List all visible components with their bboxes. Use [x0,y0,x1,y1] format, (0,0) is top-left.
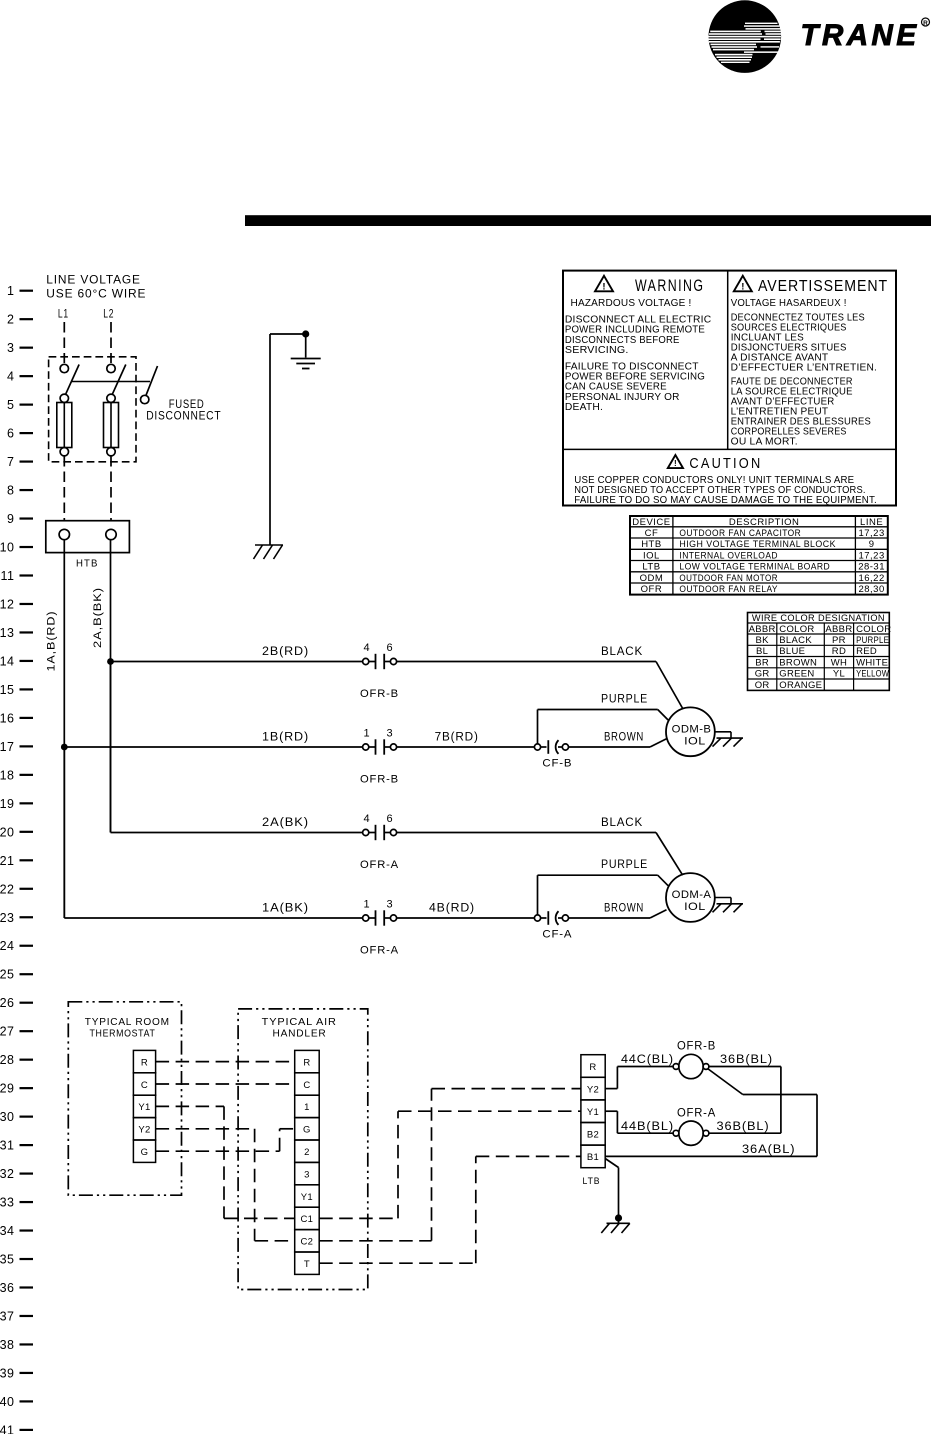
svg-text:TYPICAL AIR: TYPICAL AIR [262,1016,337,1028]
svg-text:2: 2 [304,1147,310,1158]
wire 1A,B(RD) vertical [46,540,65,918]
svg-text:21: 21 [0,854,15,868]
svg-text:BROWN: BROWN [604,903,644,915]
contact OFR-B 4-6 [360,642,399,700]
svg-text:DESCRIPTION: DESCRIPTION [729,517,799,528]
svg-text:18: 18 [0,768,15,782]
svg-text:1: 1 [363,899,369,911]
svg-text:GR: GR [755,669,770,680]
svg-text:OFR: OFR [641,584,663,595]
switch S2 [107,364,126,394]
svg-text:R: R [923,20,928,27]
wire LTB B1 to ground [605,1159,622,1224]
wire BROWN ODM-A [569,903,667,919]
svg-text:HANDLER: HANDLER [273,1028,327,1040]
svg-text:HIGH VOLTAGE TERMINAL BLOCK: HIGH VOLTAGE TERMINAL BLOCK [679,539,836,550]
svg-text:22: 22 [0,882,15,896]
svg-text:COLOR: COLOR [779,624,814,635]
svg-text:Y1: Y1 [587,1107,599,1118]
svg-text:SERVICING.: SERVICING. [565,345,629,356]
node L1 [58,308,69,320]
wire BLACK to ODM-B [397,646,683,709]
svg-text:OU LA MORT.: OU LA MORT. [731,437,798,448]
svg-text:AVERTISSEMENT: AVERTISSEMENT [758,278,888,295]
terminal block LTB [581,1055,605,1187]
chassis ground symbol [254,545,284,559]
svg-text:THERMOSTAT: THERMOSTAT [90,1028,156,1040]
svg-text:9: 9 [7,512,14,526]
capacitor CF-B [534,740,572,769]
svg-text:TYPICAL ROOM: TYPICAL ROOM [85,1016,170,1028]
svg-text:C2: C2 [301,1237,314,1248]
wire 1A(BK) [64,747,362,918]
svg-text:9: 9 [869,539,875,550]
svg-text:BLACK: BLACK [601,646,643,658]
ground wire top [270,330,309,357]
svg-text:PURPLE: PURPLE [601,859,648,871]
svg-text:GREEN: GREEN [779,669,814,680]
node L2 [103,308,114,320]
earth ground symbol [291,359,321,369]
svg-text:WH: WH [831,657,847,668]
svg-text:Y2: Y2 [138,1125,150,1136]
wire PURPLE ODM-B [538,694,669,744]
switch linkage bar [71,381,150,383]
svg-text:OUTDOOR FAN RELAY: OUTDOOR FAN RELAY [679,584,778,595]
svg-text:6: 6 [386,642,392,654]
svg-text:1B(RD): 1B(RD) [262,732,309,744]
svg-text:BLACK: BLACK [601,817,643,829]
svg-text:17,23: 17,23 [858,528,884,539]
svg-text:RED: RED [856,646,877,657]
svg-text:BR: BR [755,657,769,668]
svg-text:27: 27 [0,1025,15,1039]
wire L2 to disconnect [110,322,112,363]
svg-text:2A,B(BK): 2A,B(BK) [92,587,104,648]
svg-text:LINE: LINE [860,517,883,528]
svg-text:7B(RD): 7B(RD) [435,732,479,744]
svg-text:4: 4 [363,642,369,654]
warning label [563,271,896,506]
svg-text:OFR-B: OFR-B [360,688,399,700]
svg-text:WHITE: WHITE [856,657,888,668]
svg-text:ODM-A: ODM-A [672,889,712,901]
svg-text:OUTDOOR FAN CAPACITOR: OUTDOOR FAN CAPACITOR [679,528,801,539]
svg-text:OFR-A: OFR-A [677,1108,716,1120]
svg-text:36A(BL): 36A(BL) [742,1144,796,1156]
svg-text:25: 25 [0,968,15,982]
svg-text:!: ! [674,459,677,468]
switch S3 [141,366,158,404]
wire T air handler to LTB B1 [319,1156,581,1263]
svg-text:28,30: 28,30 [858,584,884,595]
svg-text:!: ! [602,281,605,292]
svg-text:23: 23 [0,911,15,925]
svg-text:HTB: HTB [641,539,662,550]
svg-text:6: 6 [7,427,14,441]
svg-text:LTB: LTB [642,562,660,573]
svg-text:LTB: LTB [583,1176,601,1187]
typical air handler enclosure [238,1009,368,1290]
svg-text:ABBR: ABBR [825,624,852,635]
svg-text:35: 35 [0,1253,15,1267]
fuse F1 [57,394,72,456]
capacitor CF-A [534,911,572,940]
wire Y1 thermostat to C1 [156,1106,295,1218]
svg-text:4: 4 [363,813,369,825]
svg-text:17,23: 17,23 [858,550,884,561]
svg-text:YL: YL [833,669,845,680]
svg-text:1A,B(RD): 1A,B(RD) [46,611,58,672]
svg-text:DEATH.: DEATH. [565,402,603,413]
svg-text:14: 14 [0,654,15,668]
svg-text:COLOR: COLOR [856,624,891,635]
svg-text:USE 60°C WIRE: USE 60°C WIRE [46,289,146,301]
relay coil OFR-A [673,1108,716,1146]
wire 2A,B(BK) vertical [92,540,111,833]
svg-text:3: 3 [386,728,392,740]
line number scale [0,284,33,1434]
contact OFR-A 1-3 [360,899,399,957]
svg-text:7: 7 [7,455,14,469]
wire R thermostat to air handler [156,1061,295,1063]
svg-text:8: 8 [7,484,14,498]
svg-text:36B(BL): 36B(BL) [717,1121,770,1133]
svg-text:33: 33 [0,1196,15,1210]
svg-text:BROWN: BROWN [779,657,817,668]
wire color designation table [748,613,892,692]
wire BLACK to ODM-A [397,817,683,875]
junction line17 [61,744,68,751]
thermostat terminal strip [133,1050,155,1162]
svg-text:29: 29 [0,1082,15,1096]
svg-text:R: R [589,1062,596,1073]
terminal block HTB [46,521,130,570]
svg-text:28: 28 [0,1053,15,1067]
svg-text:HTB: HTB [76,558,99,570]
wire G thermostat to air handler [156,1129,295,1151]
svg-text:3: 3 [7,341,14,355]
wire Y2 thermostat to C2 [156,1129,295,1241]
wire 44B(BL) [605,1111,674,1133]
svg-text:OFR-A: OFR-A [360,859,399,871]
motor ODM-A with internal overload [666,873,715,922]
svg-text:34: 34 [0,1224,15,1238]
svg-text:BLUE: BLUE [779,646,805,657]
svg-text:Y2: Y2 [587,1084,599,1095]
svg-text:LOW VOLTAGE TERMINAL BOARD: LOW VOLTAGE TERMINAL BOARD [679,562,830,573]
wire 2A(BK) [111,662,363,833]
svg-text:R: R [303,1057,310,1068]
wire 4B(RD) [397,903,535,919]
svg-text:BL: BL [756,646,768,657]
svg-text:INTERNAL OVERLOAD: INTERNAL OVERLOAD [679,550,778,561]
svg-text:PR: PR [832,635,846,646]
svg-text:IOL: IOL [643,550,660,561]
fused disconnect enclosure [49,357,222,462]
svg-text:ORANGE: ORANGE [779,680,822,691]
svg-text:PURPLE: PURPLE [856,635,889,646]
wire 36B(BL) [709,1054,781,1133]
svg-text:BK: BK [756,635,770,646]
svg-text:ODM: ODM [640,573,664,584]
svg-text:39: 39 [0,1366,15,1380]
svg-text:17: 17 [0,740,15,754]
svg-text:Y1: Y1 [138,1102,150,1113]
relay coil OFR-B [673,1041,716,1079]
Trane logo [709,0,930,73]
svg-text:WARNING: WARNING [635,276,704,295]
svg-text:OR: OR [755,680,770,691]
svg-text:OFR-A: OFR-A [360,945,399,957]
wire 7B(RD) [397,732,535,748]
air handler terminal strip [295,1050,320,1274]
svg-text:16: 16 [0,711,15,725]
svg-text:VOLTAGE HASARDEUX !: VOLTAGE HASARDEUX ! [731,298,847,309]
wire BROWN ODM-B [569,732,667,748]
svg-text:1: 1 [304,1102,310,1113]
svg-text:1: 1 [7,284,14,298]
wire 44C(BL) [605,1054,674,1089]
svg-text:DISCONNECT: DISCONNECT [146,411,221,423]
svg-text:LINE VOLTAGE: LINE VOLTAGE [46,275,141,287]
wire C2 to LTB Y2 [319,1089,581,1241]
junction line14 [107,658,114,665]
svg-text:1: 1 [363,728,369,740]
typical room thermostat enclosure [68,1002,181,1195]
wire C1 to LTB Y1 [319,1111,581,1218]
svg-text:2A(BK): 2A(BK) [262,817,309,829]
svg-text:20: 20 [0,825,15,839]
svg-text:B2: B2 [587,1130,599,1141]
contact OFR-A 4-6 [360,813,399,871]
svg-text:41: 41 [0,1423,15,1434]
svg-text:IOL: IOL [684,735,706,747]
svg-text:28-31: 28-31 [858,562,885,573]
svg-text:RD: RD [832,646,846,657]
svg-text:YELLOW: YELLOW [856,669,889,680]
svg-text:CAUTION: CAUTION [689,456,762,472]
svg-text:4: 4 [7,370,14,384]
svg-text:DEVICE: DEVICE [632,517,670,528]
svg-text:40: 40 [0,1395,15,1409]
chassis ground ODM-B [713,732,744,747]
svg-text:IOL: IOL [684,901,706,913]
wire L1 to disconnect [63,322,65,363]
svg-text:10: 10 [0,541,15,555]
svg-text:FUSED: FUSED [169,399,205,411]
wire ground vertical [269,334,271,545]
svg-text:31: 31 [0,1139,15,1153]
device legend table [630,516,888,595]
svg-text:1A(BK): 1A(BK) [262,903,309,915]
switch S1 [60,364,79,394]
svg-text:OFR-B: OFR-B [360,774,399,786]
svg-text:15: 15 [0,683,15,697]
svg-text:26: 26 [0,996,15,1010]
svg-text:HAZARDOUS VOLTAGE !: HAZARDOUS VOLTAGE ! [571,298,692,309]
svg-text:T: T [304,1259,310,1270]
svg-text:FAILURE TO DO SO MAY CAUSE DAM: FAILURE TO DO SO MAY CAUSE DAMAGE TO THE… [574,495,877,506]
svg-text:PURPLE: PURPLE [601,694,648,706]
svg-text:11: 11 [1,569,15,583]
svg-text:C: C [303,1080,310,1091]
svg-text:CF-A: CF-A [542,929,572,941]
svg-text:BROWN: BROWN [604,732,644,744]
title bar [245,215,931,226]
svg-text:36B(BL): 36B(BL) [720,1054,773,1066]
svg-text:12: 12 [0,597,15,611]
chassis ground LTB [601,1223,630,1233]
svg-text:3: 3 [386,899,392,911]
svg-text:6: 6 [386,813,392,825]
svg-text:CF: CF [645,528,659,539]
contact OFR-B 1-3 [360,728,399,786]
svg-text:B1: B1 [587,1152,599,1163]
svg-text:2: 2 [7,313,14,327]
svg-text:Y1: Y1 [301,1192,313,1203]
svg-text:19: 19 [0,797,15,811]
svg-text:L1: L1 [58,308,69,320]
svg-text:32: 32 [0,1167,15,1181]
svg-text:13: 13 [0,626,15,640]
svg-text:38: 38 [0,1338,15,1352]
svg-text:G: G [141,1147,149,1158]
wire 2B(RD) [111,646,363,662]
svg-text:D’EFFECTUER L’ENTRETIEN.: D’EFFECTUER L’ENTRETIEN. [731,362,877,373]
svg-text:ABBR: ABBR [749,624,776,635]
svg-text:CF-B: CF-B [542,758,572,770]
wire fuse F1 to HTB [63,456,65,521]
fuse F2 [104,394,119,456]
svg-text:OFR-B: OFR-B [677,1041,716,1053]
svg-text:G: G [303,1125,311,1136]
svg-text:44B(BL): 44B(BL) [621,1121,674,1133]
svg-text:ODM-B: ODM-B [672,723,712,735]
svg-text:!: ! [741,281,744,292]
svg-text:WIRE COLOR DESIGNATION: WIRE COLOR DESIGNATION [752,613,885,624]
wire C thermostat to air handler [156,1083,295,1085]
svg-text:OUTDOOR FAN MOTOR: OUTDOOR FAN MOTOR [679,573,778,584]
svg-text:30: 30 [0,1110,15,1124]
svg-text:16,22: 16,22 [858,573,884,584]
svg-text:5: 5 [7,398,14,412]
svg-text:37: 37 [0,1309,15,1323]
wire 1B(RD) [64,732,362,748]
svg-text:L2: L2 [103,308,114,320]
svg-text:BLACK: BLACK [779,635,812,646]
motor ODM-B with internal overload [666,707,715,756]
note line voltage [46,275,146,301]
svg-text:R: R [141,1057,148,1068]
svg-text:4B(RD): 4B(RD) [429,903,475,915]
svg-text:2B(RD): 2B(RD) [262,646,309,658]
svg-text:C1: C1 [301,1214,314,1225]
svg-text:3: 3 [304,1169,310,1180]
chassis ground ODM-A [713,898,744,913]
wire PURPLE ODM-A [538,859,669,915]
wire fuse F2 to HTB [110,456,112,521]
svg-text:44C(BL): 44C(BL) [621,1054,674,1066]
wire 36A(BL) [605,1069,817,1157]
svg-text:24: 24 [0,939,15,953]
svg-text:C: C [141,1080,148,1091]
svg-text:TRANE: TRANE [801,19,920,52]
svg-text:36: 36 [0,1281,15,1295]
